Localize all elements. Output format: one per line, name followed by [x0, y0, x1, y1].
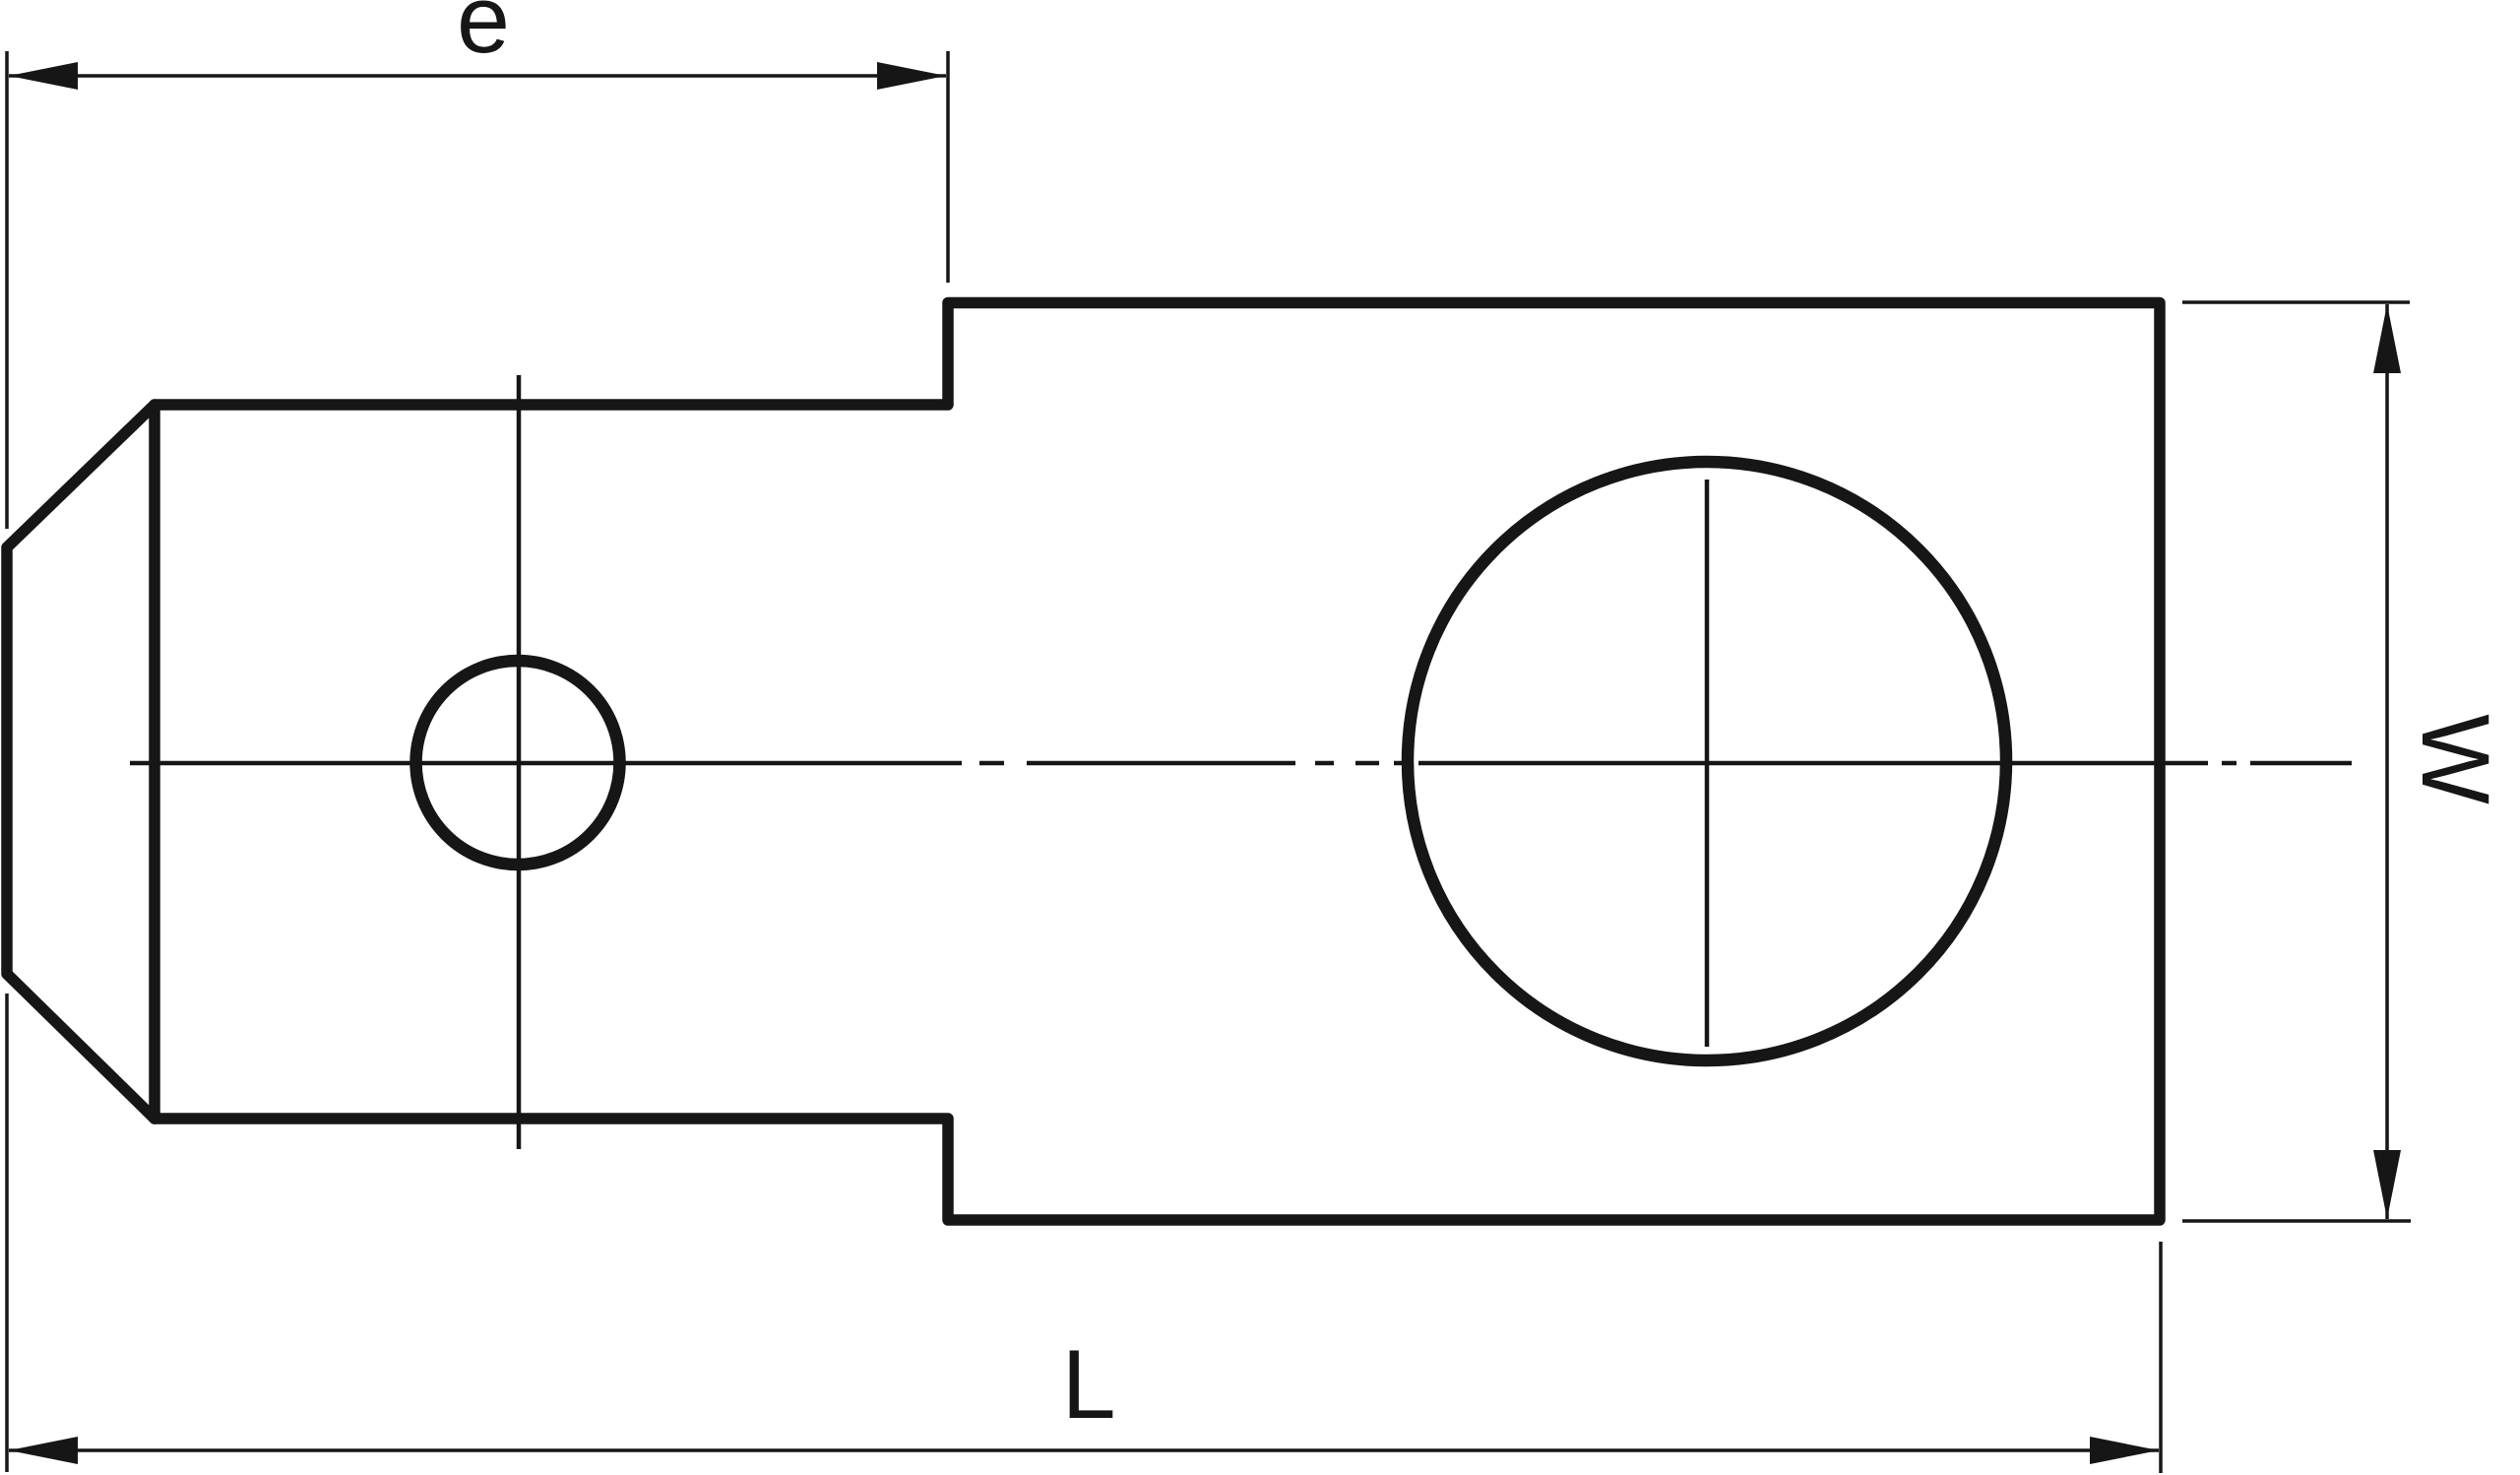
dimension L: left arrowhead	[9, 1437, 78, 1464]
small hole vertical centerline	[517, 375, 522, 1149]
small hole	[416, 661, 620, 865]
svg-text:e: e	[457, 0, 510, 73]
dimension W: top extension line	[2182, 300, 2410, 304]
dimension L: left extension line	[5, 994, 9, 1472]
dimension L: right arrowhead	[2090, 1437, 2159, 1464]
dimension W: bottom arrowhead	[2373, 1150, 2401, 1219]
dimension L: dimension line	[9, 1448, 2159, 1452]
part outline (stepped tab body)	[7, 303, 2160, 1221]
large hole vertical centerline	[1705, 480, 1710, 1047]
dimension e: right extension line	[946, 51, 950, 283]
large hole	[1408, 462, 2006, 1060]
svg-text:W: W	[2402, 714, 2509, 804]
dimension e: right arrowhead	[877, 62, 946, 90]
dimension L: right extension line	[2159, 1242, 2163, 1473]
dimension e: dimension line	[9, 74, 946, 78]
dimension W: top arrowhead	[2373, 304, 2401, 373]
dimension W: dimension line	[2385, 304, 2389, 1219]
crease line at chamfer root	[149, 405, 160, 1119]
horizontal centerline (dash-dot)	[130, 761, 2352, 766]
svg-text:L: L	[1061, 1329, 1115, 1439]
dimension W: bottom extension line	[2182, 1219, 2411, 1223]
dimension e: left extension line	[5, 51, 9, 529]
dimension e: left arrowhead	[9, 62, 78, 90]
